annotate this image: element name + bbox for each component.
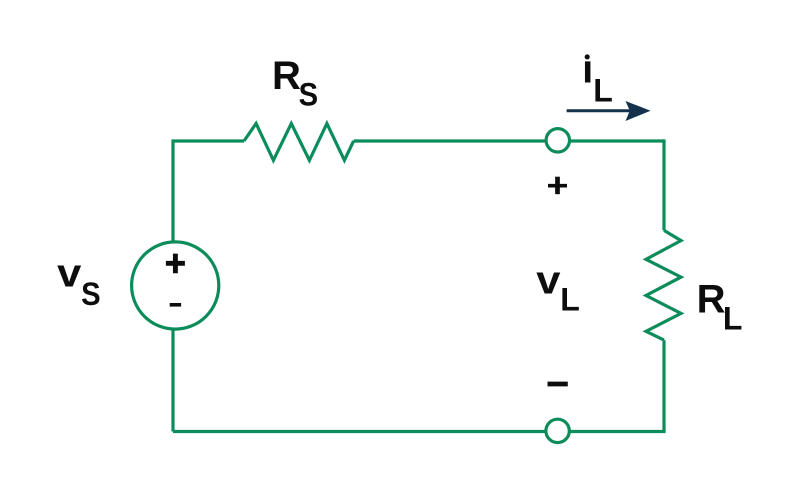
resistor R_S bbox=[244, 124, 354, 161]
svg-text:L: L bbox=[723, 301, 743, 337]
svg-text:L: L bbox=[560, 282, 580, 318]
resistor R_L bbox=[646, 230, 681, 340]
voltage source plus sign bbox=[166, 254, 185, 274]
voltage source V1 circle bbox=[132, 242, 219, 329]
svg-text:v: v bbox=[536, 259, 561, 303]
wire right vertical top bbox=[662, 139, 665, 230]
node plus sign (v_L +) bbox=[548, 184, 567, 188]
svg-text:S: S bbox=[81, 276, 101, 312]
node terminal top bbox=[546, 129, 569, 152]
wire resistor R_S to top-right corner bbox=[354, 139, 664, 142]
svg-text:S: S bbox=[299, 77, 319, 113]
label i_L dot bbox=[585, 54, 590, 59]
svg-text:R: R bbox=[272, 54, 301, 98]
svg-text:R: R bbox=[697, 278, 726, 322]
current arrow i_L shaft bbox=[567, 109, 630, 112]
svg-text:L: L bbox=[593, 72, 613, 108]
svg-text:ı: ı bbox=[582, 47, 593, 91]
voltage source minus sign bbox=[170, 303, 181, 307]
svg-text:v: v bbox=[57, 252, 82, 296]
wire bottom bbox=[173, 430, 666, 433]
node terminal bottom bbox=[546, 419, 569, 442]
wire left vertical below source bbox=[171, 328, 174, 432]
wire right vertical bottom bbox=[662, 340, 665, 431]
current arrow i_L head bbox=[626, 101, 651, 121]
wire top-left corner and left vertical to source bbox=[173, 141, 244, 243]
node minus sign (v_L -) bbox=[548, 382, 568, 387]
